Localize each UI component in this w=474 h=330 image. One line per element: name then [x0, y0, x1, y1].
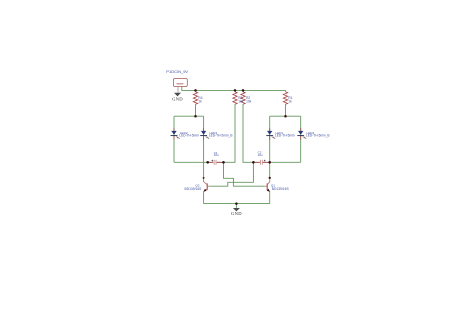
svg-text:BD139/16S: BD139/16S: [185, 187, 203, 191]
svg-text:1k: 1k: [288, 99, 292, 103]
svg-text:BD139/16S: BD139/16S: [272, 187, 290, 191]
svg-text:LED-TH-5mm_B: LED-TH-5mm_B: [306, 134, 330, 138]
svg-text:10u: 10u: [214, 153, 219, 157]
svg-text:1k: 1k: [198, 99, 202, 103]
svg-text:10k: 10k: [238, 99, 244, 103]
svg-text:LED-TH-5mm: LED-TH-5mm: [179, 134, 199, 138]
svg-text:P1DCIN_9V: P1DCIN_9V: [166, 69, 188, 74]
svg-text:GND: GND: [172, 97, 183, 102]
svg-text:GND: GND: [231, 211, 242, 216]
svg-text:LED-TH-5mm: LED-TH-5mm: [275, 134, 295, 138]
svg-text:LED-TH-5mm_B: LED-TH-5mm_B: [209, 134, 233, 138]
svg-text:10u: 10u: [258, 153, 263, 157]
svg-text:10k: 10k: [246, 99, 252, 103]
